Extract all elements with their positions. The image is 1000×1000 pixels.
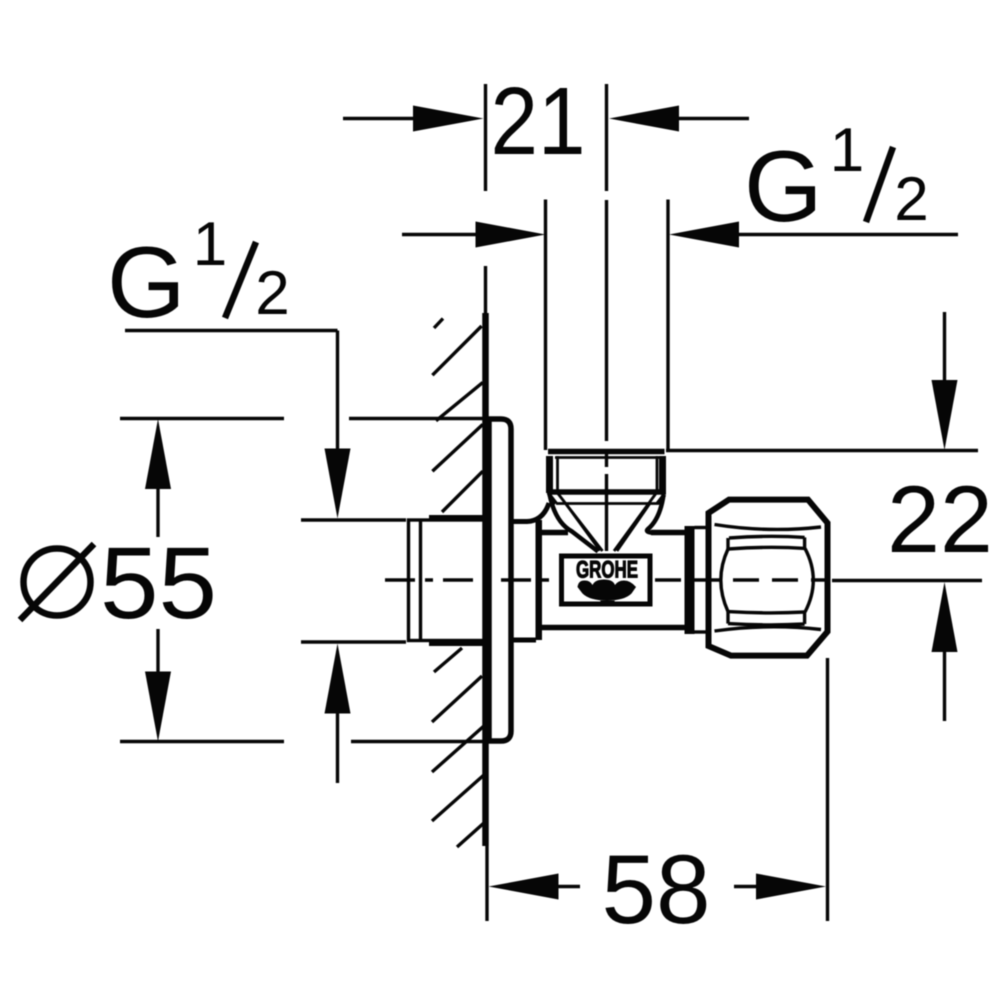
dimension G1/2 top: arrowheads bbox=[476, 222, 546, 248]
GROHE label text bbox=[576, 557, 638, 584]
svg-text:G: G bbox=[107, 227, 186, 339]
washer bar at body outlet bbox=[685, 526, 695, 634]
svg-text:1: 1 bbox=[193, 210, 227, 279]
GROHE label box bbox=[562, 556, 651, 604]
nut middle barrel bbox=[721, 549, 728, 612]
valve body bbox=[542, 530, 568, 536]
dimension 21: dimension lines bbox=[343, 117, 414, 120]
dimension diameter 55: extension lines bbox=[120, 419, 487, 742]
dimension 58: extension lines bbox=[485, 846, 488, 921]
svg-text:58: 58 bbox=[601, 834, 710, 944]
compression nut outline bbox=[709, 500, 828, 656]
dimension G1/2 top: extension lines bbox=[544, 200, 547, 451]
dimension G1/2 left: leader line bbox=[125, 329, 338, 332]
svg-text:22: 22 bbox=[887, 467, 993, 573]
vertical centerline of top port bbox=[605, 84, 608, 551]
dimension diameter 55: dimension line bbox=[156, 489, 159, 537]
horizontal centerline bbox=[385, 578, 559, 581]
dimension 22: arrowheads bbox=[932, 380, 958, 450]
dimension G1/2 left: arrowheads bbox=[325, 449, 351, 519]
dimension 58: dimension line bbox=[559, 885, 581, 888]
spigot between body and nut bbox=[695, 526, 709, 529]
GROHE laurel logo bbox=[578, 580, 637, 601]
dimension G1/2 left: extension lines at thread bbox=[301, 518, 406, 521]
dimension 22: extension lines bbox=[666, 449, 978, 452]
dimension G1/2 left: vertical dimension line bbox=[336, 331, 339, 450]
dimension 22: dimension line bbox=[943, 312, 946, 381]
svg-text:2: 2 bbox=[894, 165, 928, 234]
dimension diameter 55: diameter symbol bbox=[24, 549, 91, 616]
nut lower flat lines bbox=[728, 612, 805, 613]
male thread inlet bbox=[409, 518, 487, 644]
dimension 58: arrowheads bbox=[489, 874, 559, 900]
svg-text:1: 1 bbox=[830, 116, 864, 185]
dimension G1/2 top: text bbox=[744, 116, 929, 243]
nut upper flat lines bbox=[729, 536, 805, 538]
svg-text:G: G bbox=[744, 131, 823, 243]
svg-text:GROHE: GROHE bbox=[576, 557, 638, 584]
funnel cone into body bbox=[550, 492, 664, 552]
svg-text:21: 21 bbox=[491, 68, 586, 175]
svg-text:2: 2 bbox=[255, 259, 289, 328]
valve neck bbox=[510, 503, 549, 522]
neck-body step bbox=[536, 520, 543, 640]
dimension G1/2 left: text bbox=[107, 210, 290, 339]
top outlet collar G1/2 bbox=[547, 452, 666, 504]
dimension diameter 55: arrowheads bbox=[145, 419, 171, 489]
escutcheon plate bbox=[489, 419, 511, 741]
dimension G1/2 top: dimension lines bbox=[402, 233, 477, 236]
dimension 21: arrowheads bbox=[413, 106, 484, 132]
svg-text:55: 55 bbox=[100, 526, 217, 640]
wall hatching bbox=[432, 319, 485, 848]
nut top chamfer arc bbox=[715, 525, 822, 530]
nut bottom chamfer arc bbox=[715, 627, 822, 631]
dimension 21: extension line at wall bbox=[484, 84, 487, 191]
wall line bbox=[482, 313, 489, 846]
